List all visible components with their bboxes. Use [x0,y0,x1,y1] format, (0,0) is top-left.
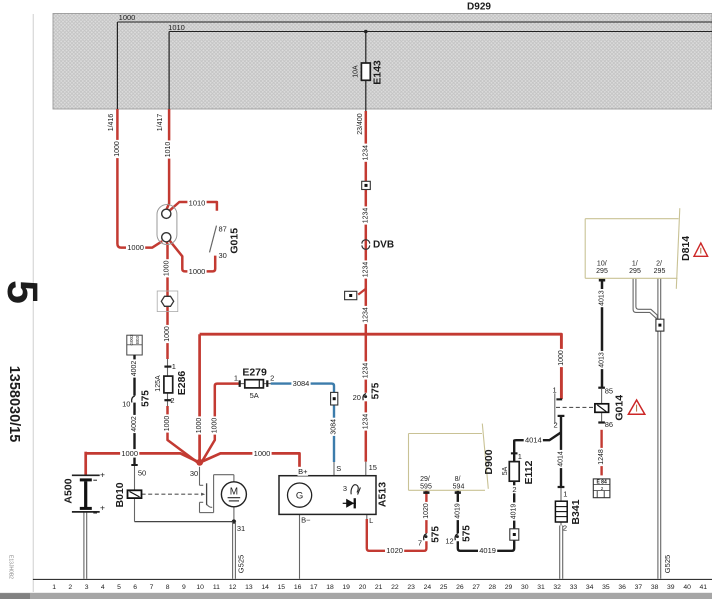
svg-text:1234: 1234 [362,307,369,323]
svg-text:D900: D900 [483,449,495,474]
svg-text:E286: E286 [176,371,188,396]
svg-text:G014: G014 [613,395,625,421]
svg-text:1000: 1000 [114,141,121,157]
svg-text:15: 15 [278,584,286,591]
svg-text:4019: 4019 [511,504,518,520]
svg-text:S: S [336,464,341,473]
svg-text:1: 1 [52,584,56,591]
svg-text:50: 50 [138,469,146,478]
svg-text:5A: 5A [502,466,509,475]
svg-text:5A: 5A [250,391,259,400]
svg-text:575: 575 [140,390,151,407]
svg-text:16: 16 [294,584,302,591]
svg-text:B03: B03 [135,336,140,345]
svg-text:3: 3 [85,584,89,591]
svg-text:23/400: 23/400 [357,113,364,135]
svg-text:32: 32 [553,584,561,591]
svg-text:G525: G525 [236,555,245,573]
svg-text:29/: 29/ [420,476,430,483]
svg-text:87: 87 [219,225,227,234]
svg-text:1000: 1000 [254,449,271,458]
svg-text:1000: 1000 [121,449,138,458]
svg-text:594: 594 [453,483,465,490]
svg-text:22: 22 [391,584,399,591]
svg-text:1000: 1000 [189,267,206,276]
svg-text:12: 12 [229,584,237,591]
svg-text:125A: 125A [155,375,162,392]
svg-text:1000: 1000 [196,418,203,434]
svg-text:595: 595 [420,483,432,490]
svg-text:2/: 2/ [656,261,662,268]
svg-text:E 84: E 84 [596,480,607,486]
svg-text:2: 2 [512,485,516,494]
svg-text:1000: 1000 [119,13,136,22]
svg-text:DVB: DVB [373,240,394,251]
svg-text:1234: 1234 [362,145,369,161]
svg-text:8: 8 [166,584,170,591]
svg-text:3084: 3084 [331,419,338,435]
svg-text:G: G [296,491,303,502]
svg-text:D929: D929 [467,1,491,12]
svg-text:A500: A500 [63,478,75,503]
svg-text:B010: B010 [114,482,126,507]
svg-text:10: 10 [196,584,204,591]
svg-text:1000: 1000 [163,260,170,276]
svg-text:2: 2 [554,420,558,429]
svg-text:15: 15 [369,463,377,472]
svg-text:4013: 4013 [599,290,606,306]
svg-text:E143: E143 [372,60,384,85]
svg-text:G525: G525 [663,555,672,573]
svg-text:G015: G015 [229,228,241,254]
svg-text:33: 33 [570,584,578,591]
svg-text:36: 36 [618,584,626,591]
svg-text:30: 30 [219,251,227,260]
svg-text:E112: E112 [523,460,535,484]
svg-text:30: 30 [190,469,198,478]
svg-text:295: 295 [629,268,641,275]
svg-text:10/: 10/ [597,261,607,268]
svg-text:1: 1 [563,490,567,499]
svg-text:28: 28 [489,584,497,591]
svg-text:1234: 1234 [362,262,369,278]
svg-text:25: 25 [440,584,448,591]
svg-text:11: 11 [213,584,220,591]
svg-text:1/417: 1/417 [157,114,164,132]
svg-text:1010: 1010 [189,198,206,207]
svg-text:38: 38 [651,584,659,591]
svg-text:23: 23 [407,584,415,591]
svg-text:34: 34 [586,584,594,591]
svg-text:20: 20 [353,393,361,402]
svg-text:1000: 1000 [127,243,144,252]
svg-text:26: 26 [456,584,464,591]
svg-text:21: 21 [375,584,383,591]
svg-text:G003: G003 [129,334,134,346]
svg-text:295: 295 [596,268,608,275]
svg-text:30: 30 [521,584,529,591]
svg-text:1234: 1234 [362,414,369,430]
svg-text:1358030/15: 1358030/15 [6,366,22,443]
svg-text:2: 2 [68,584,72,591]
svg-text:1000: 1000 [558,350,565,366]
svg-text:8/: 8/ [455,476,461,483]
svg-text:19: 19 [342,584,350,591]
svg-text:B+: B+ [298,467,308,476]
svg-text:1/416: 1/416 [108,114,115,132]
svg-text:10: 10 [122,400,130,409]
svg-text:A513: A513 [377,482,389,507]
svg-text:2: 2 [601,486,604,491]
svg-text:85: 85 [605,386,613,395]
svg-text:6: 6 [133,584,137,591]
svg-text:86: 86 [605,420,613,429]
svg-text:1/: 1/ [632,261,638,268]
svg-text:2: 2 [563,524,567,533]
svg-text:20: 20 [359,584,367,591]
svg-text:35: 35 [602,584,610,591]
svg-text:40: 40 [683,584,691,591]
svg-text:37: 37 [635,584,643,591]
svg-text:575: 575 [431,526,442,543]
svg-text:D814: D814 [680,236,692,261]
svg-text:1234: 1234 [362,208,369,224]
svg-text:7: 7 [418,539,422,548]
svg-text:L: L [369,516,373,525]
svg-text:7: 7 [150,584,154,591]
svg-text:31: 31 [237,524,245,533]
svg-text:1234: 1234 [362,363,369,379]
svg-text:24: 24 [424,584,432,591]
svg-text:E13JH0B2: E13JH0B2 [8,555,14,579]
svg-text:4014: 4014 [525,436,542,445]
svg-text:B−: B− [301,516,311,525]
svg-text:1000: 1000 [164,326,171,342]
svg-text:+: + [100,503,105,513]
svg-text:13: 13 [245,584,253,591]
svg-text:+: + [100,470,105,480]
svg-text:1010: 1010 [165,142,172,158]
svg-text:1000: 1000 [211,418,218,434]
svg-text:39: 39 [667,584,675,591]
svg-text:4002: 4002 [131,416,138,432]
svg-text:E279: E279 [242,366,267,378]
svg-text:4002: 4002 [131,361,138,377]
svg-text:M: M [230,486,238,497]
svg-text:41: 41 [700,584,708,591]
svg-text:B341: B341 [570,499,582,524]
svg-text:3084: 3084 [293,379,310,388]
svg-text:18: 18 [326,584,334,591]
svg-text:1020: 1020 [386,546,403,555]
svg-text:575: 575 [371,382,382,399]
svg-text:5: 5 [0,280,46,304]
svg-text:29: 29 [505,584,513,591]
svg-text:4019: 4019 [454,503,461,519]
svg-text:27: 27 [472,584,480,591]
svg-text:14: 14 [261,584,269,591]
svg-text:1020: 1020 [423,503,430,519]
svg-text:1: 1 [553,385,557,394]
svg-text:4014: 4014 [558,451,565,467]
svg-text:4013: 4013 [599,352,606,368]
svg-text:17: 17 [310,584,318,591]
svg-text:2: 2 [270,373,274,382]
svg-text:5: 5 [117,584,121,591]
svg-text:12: 12 [445,537,453,546]
svg-text:9: 9 [182,584,186,591]
svg-text:1: 1 [518,452,522,461]
svg-text:1: 1 [172,362,176,371]
svg-text:1000: 1000 [164,416,171,432]
svg-text:1010: 1010 [168,23,185,32]
svg-text:4: 4 [101,584,105,591]
svg-text:3: 3 [343,484,347,493]
svg-text:1: 1 [234,373,238,382]
svg-text:10A: 10A [352,65,359,78]
svg-text:31: 31 [537,584,545,591]
svg-text:2: 2 [170,396,174,405]
svg-text:295: 295 [654,268,666,275]
svg-text:1248: 1248 [598,449,605,465]
svg-text:4019: 4019 [479,546,496,555]
svg-text:575: 575 [462,525,473,542]
